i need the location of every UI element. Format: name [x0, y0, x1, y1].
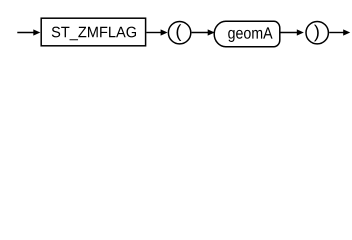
arrowhead into open paren — [161, 29, 168, 35]
wire into function box — [17, 32, 33, 34]
arrowhead into geomA — [208, 29, 215, 35]
wire out — [329, 32, 343, 34]
function box ST_ZMFLAG — [41, 18, 145, 46]
arrowhead into function box — [33, 29, 40, 35]
background — [0, 0, 352, 58]
wire geomA to close paren — [281, 32, 298, 34]
rounded terminal geomA — [214, 21, 280, 47]
arrowhead out — [343, 29, 350, 35]
syntax diagram: ST_ZMFLAG ( geomA ) — [0, 0, 352, 58]
circle terminal open paren — [168, 22, 190, 44]
label ( — [177, 24, 182, 41]
label geomA — [228, 27, 272, 42]
circle terminal close paren — [306, 22, 328, 44]
label ) — [314, 25, 319, 42]
wire box to open paren — [146, 32, 161, 34]
label ST_ZMFLAG — [52, 27, 136, 41]
wire open paren to geomA — [192, 32, 209, 34]
arrowhead into close paren — [297, 29, 304, 35]
